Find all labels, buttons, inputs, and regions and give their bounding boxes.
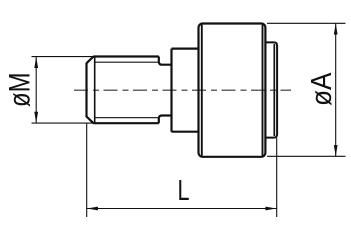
stud thread root bottom	[95, 117, 159, 119]
dimension oM arrow down	[34, 112, 38, 123]
collar left face	[170, 49, 172, 132]
stud chamfer top diagonal	[87, 57, 94, 64]
dimension oA arrow up	[334, 23, 338, 34]
outer ring right chamfer line	[262, 25, 264, 156]
dimension oA arrow down	[334, 145, 338, 156]
collar bottom	[172, 131, 200, 133]
dimension L line	[87, 208, 277, 210]
dimension L arrow right	[265, 207, 276, 211]
stud thread root top	[95, 61, 159, 63]
svg-text:øM: øM	[3, 73, 36, 108]
collar top	[172, 47, 200, 49]
dimension oA extension line top	[267, 22, 346, 24]
dimension L extension line left	[86, 124, 88, 218]
stud chamfer boundary line	[94, 57, 96, 124]
dimension L arrow left	[87, 207, 98, 211]
bearing outer ring outline	[199, 24, 266, 157]
thread undercut neck top	[159, 57, 172, 65]
stud thread crest top	[93, 55, 159, 57]
centerline axis	[74, 89, 291, 91]
dimension L extension line right	[276, 138, 278, 217]
end washer chamfer line	[273, 44, 275, 136]
dimension oM line	[35, 57, 37, 123]
dimension oM extension line top	[32, 56, 94, 58]
dimension oM arrow up	[34, 57, 38, 68]
stud chamfer bottom diagonal	[87, 117, 94, 124]
stud left end face	[85, 63, 87, 117]
dimension oA line	[335, 23, 337, 156]
svg-text:øA: øA	[306, 72, 338, 106]
svg-text:L: L	[178, 175, 190, 207]
thread undercut neck bottom	[159, 116, 172, 124]
dimension oM extension line bottom	[32, 122, 95, 124]
stud thread crest bottom	[93, 122, 159, 124]
dimension oA extension line bottom	[267, 155, 346, 157]
outer ring left chamfer line	[201, 25, 203, 156]
end washer outline	[265, 42, 277, 137]
